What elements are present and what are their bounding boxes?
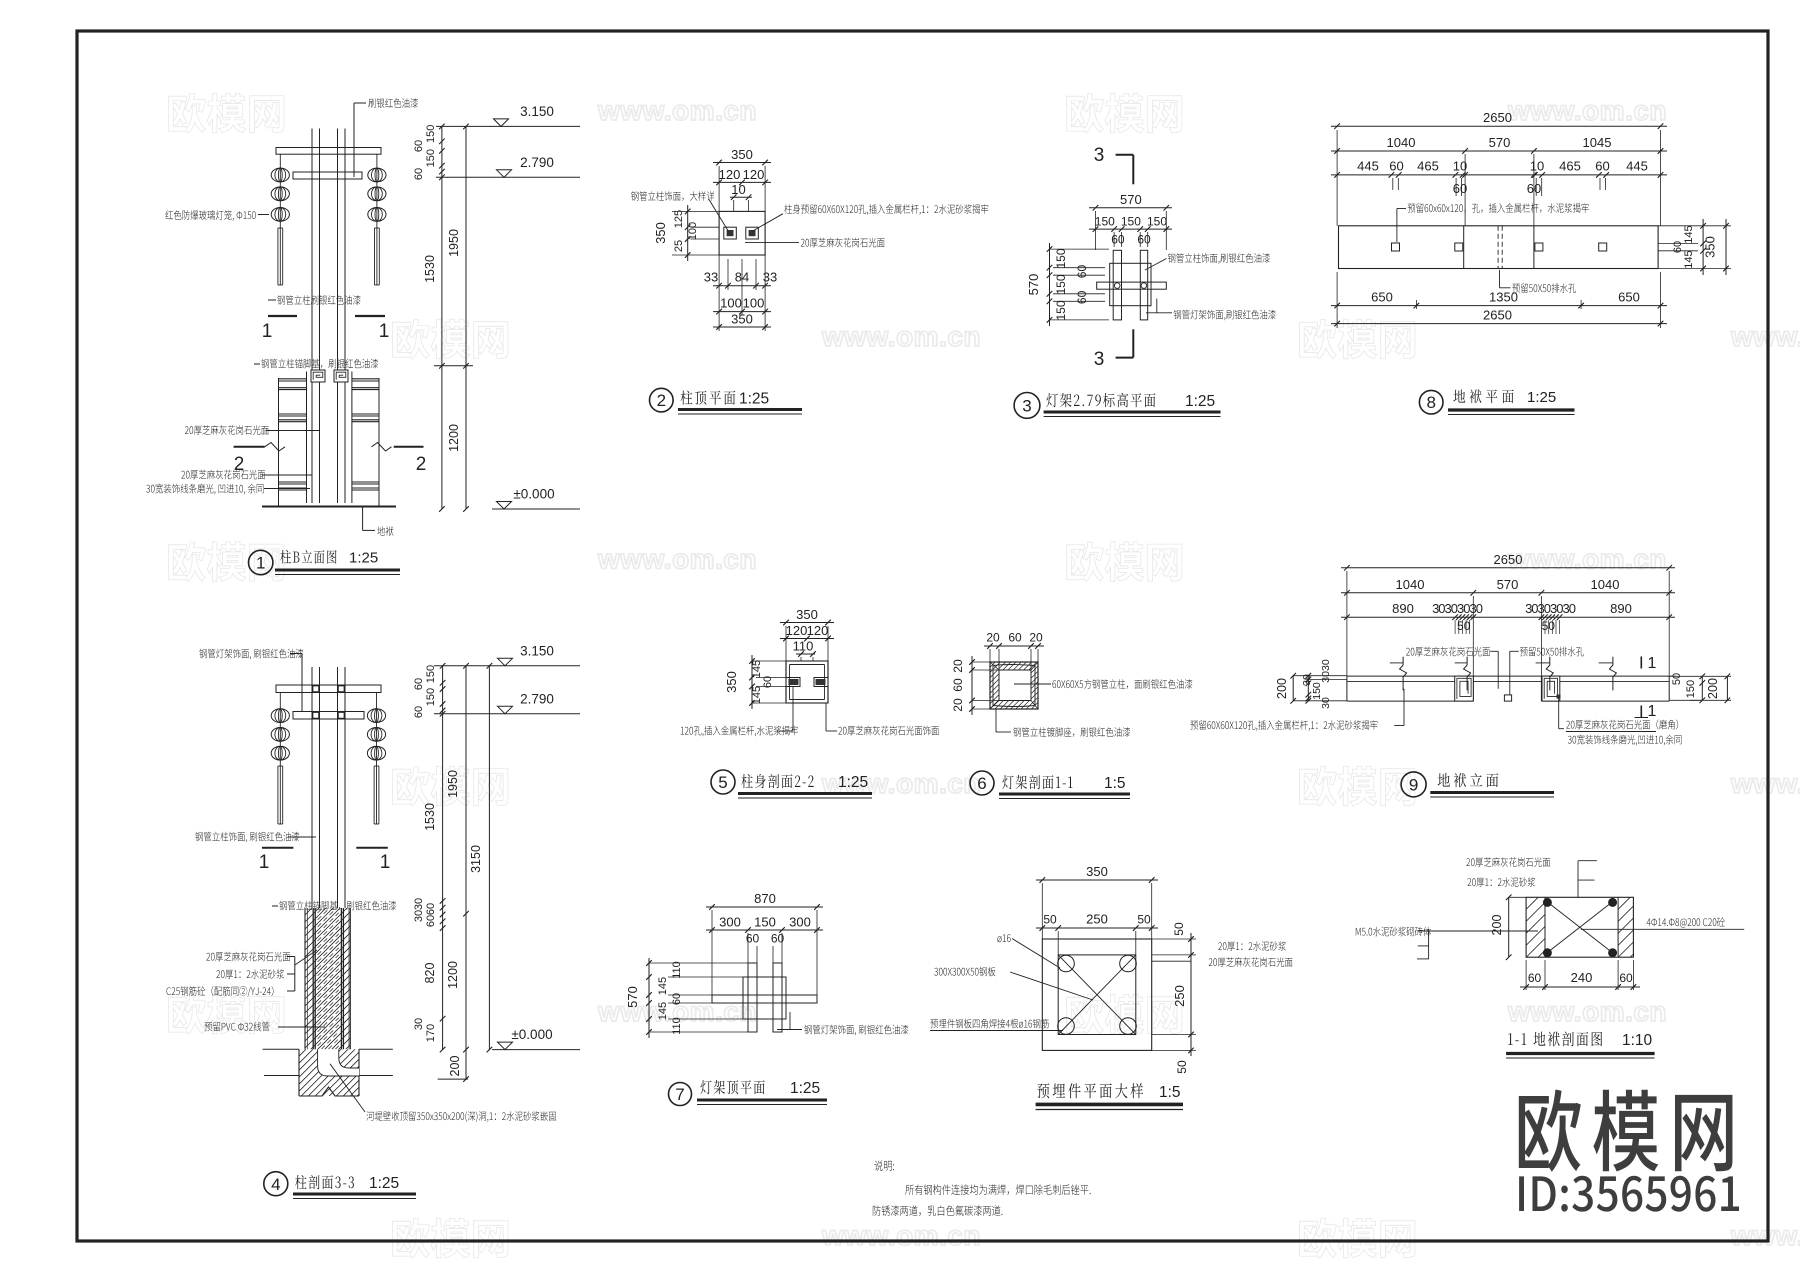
- svg-text:www.om.cn: www.om.cn: [821, 1220, 981, 1251]
- svg-text:8: 8: [1426, 393, 1435, 412]
- svg-text:60: 60: [1389, 159, 1403, 174]
- svg-text:20: 20: [951, 659, 965, 673]
- svg-text:www.om.cn: www.om.cn: [1730, 1220, 1800, 1251]
- svg-text:60: 60: [951, 678, 965, 692]
- svg-text:1: 1: [1648, 703, 1657, 720]
- svg-text:200: 200: [1490, 915, 1504, 936]
- svg-text:350: 350: [1086, 864, 1108, 879]
- svg-text:2650: 2650: [1494, 552, 1523, 567]
- svg-text:150: 150: [1054, 248, 1068, 268]
- svg-text:465: 465: [1559, 159, 1581, 174]
- svg-text:www.om.cn: www.om.cn: [597, 95, 757, 126]
- svg-text:150: 150: [1054, 300, 1068, 320]
- svg-text:1:5: 1:5: [1104, 775, 1126, 792]
- svg-text:33: 33: [704, 270, 718, 285]
- svg-text:60: 60: [425, 903, 437, 915]
- svg-text:150: 150: [425, 125, 437, 143]
- svg-text:50: 50: [1172, 922, 1186, 936]
- svg-text:2.790: 2.790: [520, 691, 554, 706]
- svg-text:www.om.cn: www.om.cn: [1507, 996, 1667, 1027]
- svg-text:www.om.cn: www.om.cn: [1730, 768, 1800, 799]
- svg-text:145: 145: [1683, 225, 1695, 243]
- svg-text:30: 30: [413, 1018, 425, 1030]
- svg-text:1530: 1530: [423, 803, 437, 831]
- svg-text:150: 150: [754, 915, 776, 930]
- svg-text:1: 1: [259, 852, 270, 873]
- svg-text:1040: 1040: [1396, 577, 1425, 592]
- svg-text:60: 60: [1075, 265, 1089, 279]
- svg-text:www.om.cn: www.om.cn: [597, 544, 757, 575]
- svg-text:120: 120: [786, 623, 808, 638]
- svg-text:1350: 1350: [1489, 290, 1518, 305]
- svg-text:20: 20: [986, 631, 1000, 645]
- svg-text:3: 3: [1022, 397, 1031, 416]
- svg-text:www.om.cn: www.om.cn: [821, 321, 981, 352]
- svg-text:5: 5: [718, 773, 727, 792]
- svg-text:150: 150: [1121, 215, 1141, 229]
- svg-text:300: 300: [789, 915, 811, 930]
- svg-text:10: 10: [1530, 159, 1544, 174]
- svg-text:60: 60: [413, 706, 425, 718]
- svg-text:1:10: 1:10: [1622, 1032, 1653, 1049]
- svg-text:2: 2: [416, 454, 427, 475]
- svg-text:1040: 1040: [1387, 135, 1416, 150]
- svg-text:3150: 3150: [469, 845, 483, 873]
- svg-text:150: 150: [1147, 215, 1167, 229]
- svg-text:1:25: 1:25: [369, 1175, 399, 1192]
- svg-text:1:25: 1:25: [349, 550, 378, 567]
- svg-text:350: 350: [731, 312, 753, 327]
- svg-text:2.790: 2.790: [520, 155, 554, 170]
- svg-text:250: 250: [1086, 912, 1108, 927]
- svg-text:650: 650: [1618, 290, 1640, 305]
- svg-text:3: 3: [1094, 349, 1105, 370]
- svg-text:60: 60: [1111, 233, 1125, 247]
- svg-text:570: 570: [1489, 135, 1511, 150]
- svg-text:60: 60: [1075, 290, 1089, 304]
- svg-text:6: 6: [977, 774, 986, 793]
- svg-text:www.om.cn: www.om.cn: [1507, 544, 1667, 575]
- svg-text:30303030: 30303030: [1525, 601, 1576, 616]
- svg-text:2650: 2650: [1483, 110, 1512, 125]
- svg-text:145: 145: [657, 1002, 669, 1020]
- svg-text:100: 100: [743, 296, 765, 311]
- svg-text:150: 150: [1685, 680, 1697, 698]
- svg-text:60: 60: [413, 678, 425, 690]
- svg-text:84: 84: [735, 270, 749, 285]
- svg-text:150: 150: [1054, 274, 1068, 294]
- svg-text:445: 445: [1626, 159, 1648, 174]
- svg-text:350: 350: [796, 607, 818, 622]
- svg-text:1: 1: [1648, 655, 1657, 672]
- svg-text:350: 350: [653, 222, 668, 244]
- svg-text:60: 60: [1137, 233, 1151, 247]
- svg-text:±0.000: ±0.000: [513, 487, 554, 502]
- svg-text:20: 20: [951, 698, 965, 712]
- svg-text:50: 50: [1671, 673, 1683, 685]
- svg-text:60: 60: [413, 140, 425, 152]
- svg-text:1: 1: [380, 852, 391, 873]
- svg-text:3.150: 3.150: [520, 104, 554, 119]
- svg-text:1040: 1040: [1591, 577, 1620, 592]
- svg-text:125: 125: [673, 210, 685, 228]
- svg-text:890: 890: [1610, 601, 1632, 616]
- svg-text:4: 4: [271, 1175, 280, 1194]
- svg-text:10: 10: [731, 182, 745, 197]
- svg-text:145: 145: [1683, 250, 1695, 268]
- svg-text:445: 445: [1357, 159, 1379, 174]
- svg-text:33: 33: [763, 270, 777, 285]
- svg-text:1:5: 1:5: [1159, 1084, 1181, 1101]
- svg-text:60: 60: [425, 915, 437, 927]
- svg-text:1: 1: [379, 321, 390, 342]
- svg-text:50: 50: [1175, 1060, 1189, 1074]
- svg-text:870: 870: [754, 891, 776, 906]
- svg-text:1:25: 1:25: [790, 1080, 820, 1097]
- svg-text:60: 60: [1619, 971, 1633, 985]
- svg-text:150: 150: [1095, 215, 1115, 229]
- svg-text:60: 60: [771, 932, 785, 946]
- svg-text:www.om.cn: www.om.cn: [1507, 95, 1667, 126]
- svg-text:1200: 1200: [446, 961, 460, 989]
- svg-text:100: 100: [720, 296, 742, 311]
- svg-text:200: 200: [1706, 678, 1720, 699]
- svg-text:150: 150: [425, 688, 437, 706]
- svg-text:1950: 1950: [446, 770, 460, 798]
- svg-text:30: 30: [413, 910, 425, 922]
- svg-text:240: 240: [1571, 970, 1593, 985]
- svg-text:60: 60: [1595, 159, 1609, 174]
- svg-text:150: 150: [425, 149, 437, 167]
- svg-text:±0.000: ±0.000: [511, 1027, 552, 1042]
- svg-text:50: 50: [1137, 913, 1151, 927]
- svg-text:120: 120: [807, 623, 829, 638]
- svg-text:30303030: 30303030: [1432, 601, 1483, 616]
- svg-text:1530: 1530: [423, 255, 437, 283]
- svg-text:170: 170: [425, 1024, 437, 1042]
- svg-text:300: 300: [719, 915, 741, 930]
- svg-text:145: 145: [751, 660, 763, 678]
- svg-text:120: 120: [719, 167, 741, 182]
- svg-text:1950: 1950: [447, 229, 461, 257]
- svg-text:50: 50: [1043, 913, 1057, 927]
- svg-text:1: 1: [256, 554, 265, 573]
- svg-text:25: 25: [673, 240, 685, 252]
- svg-text:2650: 2650: [1483, 308, 1512, 323]
- svg-text:1:25: 1:25: [1527, 389, 1556, 406]
- svg-text:350: 350: [1703, 236, 1718, 258]
- svg-text:100: 100: [687, 222, 699, 240]
- svg-text:www.om.cn: www.om.cn: [1730, 321, 1800, 352]
- svg-text:570: 570: [1497, 577, 1519, 592]
- svg-text:2: 2: [657, 391, 666, 410]
- svg-text:350: 350: [731, 147, 753, 162]
- svg-text:650: 650: [1371, 290, 1393, 305]
- svg-text:150: 150: [425, 665, 437, 683]
- svg-text:150: 150: [1311, 682, 1323, 700]
- svg-text:60: 60: [413, 168, 425, 180]
- svg-text:9: 9: [1409, 776, 1418, 795]
- svg-text:1:25: 1:25: [739, 391, 769, 408]
- svg-text:465: 465: [1417, 159, 1439, 174]
- svg-text:20: 20: [1029, 631, 1043, 645]
- svg-text:820: 820: [423, 963, 437, 984]
- svg-text:570: 570: [1120, 192, 1142, 207]
- svg-text:1045: 1045: [1583, 135, 1612, 150]
- svg-text:890: 890: [1392, 601, 1414, 616]
- svg-text:30: 30: [1320, 697, 1332, 709]
- svg-text:350: 350: [724, 671, 739, 693]
- svg-text:570: 570: [625, 986, 640, 1008]
- svg-text:1200: 1200: [447, 424, 461, 452]
- svg-text:570: 570: [1026, 274, 1041, 296]
- svg-text:250: 250: [1172, 985, 1187, 1007]
- svg-text:200: 200: [448, 1056, 462, 1077]
- svg-text:145: 145: [657, 977, 669, 995]
- svg-text:7: 7: [675, 1085, 684, 1104]
- svg-text:60: 60: [1528, 971, 1542, 985]
- svg-text:1: 1: [262, 321, 273, 342]
- svg-text:60: 60: [1008, 631, 1022, 645]
- svg-text:200: 200: [1275, 678, 1289, 699]
- svg-text:120: 120: [743, 167, 765, 182]
- svg-text:1:25: 1:25: [838, 774, 868, 791]
- svg-text:3: 3: [1094, 145, 1105, 166]
- svg-text:30: 30: [413, 898, 425, 910]
- svg-text:1:25: 1:25: [1185, 393, 1215, 410]
- svg-text:3.150: 3.150: [520, 643, 554, 658]
- svg-text:110: 110: [671, 961, 683, 979]
